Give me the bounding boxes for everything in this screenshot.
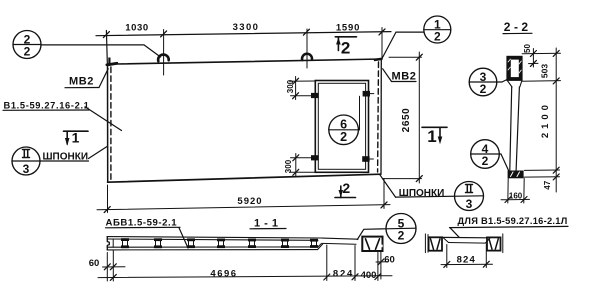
witness x=113 <box>112 251 114 282</box>
detail right block <box>487 237 501 250</box>
opening inner frame <box>318 83 365 169</box>
witness x=383.5 + dim 60 right <box>380 251 382 279</box>
svg-text:3: 3 <box>23 162 30 176</box>
witness line hook2 <box>306 29 308 68</box>
witness line right corner <box>381 28 383 59</box>
strip top flange outer line <box>107 237 322 238</box>
dim line 60 left <box>103 266 126 268</box>
svg-text:400: 400 <box>361 270 377 281</box>
panel left edge solid <box>107 64 109 183</box>
svg-text:300: 300 <box>286 79 295 93</box>
2-2 stem left line <box>510 87 512 170</box>
svg-text:160: 160 <box>509 191 523 200</box>
balloon 3/2 <box>469 68 497 96</box>
svg-text:1: 1 <box>72 130 80 146</box>
leader from balloon 2/2 to hook1 <box>41 45 161 57</box>
svg-text:МВ2: МВ2 <box>392 71 417 83</box>
2-2 taper below block <box>507 81 512 88</box>
rib 2 <box>154 238 162 248</box>
svg-text:2: 2 <box>398 228 405 242</box>
witness x=107 <box>106 253 108 282</box>
svg-text:2-2: 2-2 <box>504 20 532 34</box>
rib 7 <box>310 239 318 248</box>
svg-text:1030: 1030 <box>125 22 149 33</box>
panel bottom edge <box>108 174 381 182</box>
leader ABV to section rib <box>179 228 188 248</box>
svg-text:АБВ1.5-59-2.1: АБВ1.5-59-2.1 <box>106 217 178 228</box>
balloon II/3 left <box>12 147 40 175</box>
panel left edge dashed <box>110 67 112 180</box>
end block 1-1 <box>362 237 382 251</box>
2-2 top block <box>507 56 522 80</box>
2-2 bottom block <box>508 171 524 179</box>
thin flange bottom line <box>323 242 357 245</box>
2-2 right dims witness lines <box>522 52 560 55</box>
balloon 4/2 <box>471 140 500 169</box>
svg-text:2100: 2100 <box>540 101 551 138</box>
tick at 163 <box>161 31 167 37</box>
tick at 306 <box>303 29 309 35</box>
SECTION 1-1 STRIP <box>107 237 322 250</box>
svg-text:5920: 5920 <box>237 196 262 207</box>
strip top flange inner line <box>107 239 318 240</box>
strip bottom flange outer line <box>107 249 318 251</box>
balloon 2/2 top-left <box>13 31 41 59</box>
rib 1 <box>121 238 129 248</box>
thin flange top line <box>322 238 358 239</box>
svg-text:503: 503 <box>539 64 549 78</box>
svg-text:3: 3 <box>466 197 473 211</box>
balloon II/3 right <box>455 182 484 211</box>
2-2 stem right line <box>516 87 519 170</box>
break lines right <box>502 234 504 253</box>
svg-text:2650: 2650 <box>401 108 412 133</box>
dim 300 top: witness from opening corner <box>290 80 316 82</box>
svg-text:2: 2 <box>480 82 487 96</box>
svg-text:2: 2 <box>24 44 31 58</box>
leader 5/2 to end block <box>357 229 386 240</box>
rib 6 <box>281 239 289 248</box>
svg-text:1590: 1590 <box>336 23 360 34</box>
rib 3 <box>187 238 195 248</box>
svg-text:1: 1 <box>427 127 436 146</box>
dim line 50 <box>532 49 534 68</box>
svg-text:824: 824 <box>457 254 476 265</box>
main bottom dim line <box>98 276 392 278</box>
lifting hook 1 <box>158 55 169 62</box>
strip bottom flange inner line <box>107 246 318 248</box>
strip end joint line <box>112 239 114 247</box>
svg-text:60: 60 <box>89 258 100 269</box>
leader shponki left to panel edge <box>89 146 108 158</box>
witness x=327 <box>326 245 328 281</box>
svg-text:3300: 3300 <box>233 22 260 33</box>
svg-text:2: 2 <box>342 180 350 196</box>
main right dim line <box>555 48 557 192</box>
panel top-right corner thick mark <box>375 59 382 60</box>
opening outer frame <box>315 81 368 173</box>
panel right edge solid <box>380 59 382 174</box>
witness line left (x=106) <box>105 31 108 63</box>
rib 4 <box>217 239 225 249</box>
panel top-left corner stub <box>108 58 110 64</box>
dim 5920 <box>97 205 390 210</box>
rib 5 <box>248 239 256 248</box>
svg-text:47: 47 <box>543 180 552 189</box>
bolt right top <box>363 91 370 97</box>
witness x=355 <box>354 246 356 281</box>
svg-text:1-1: 1-1 <box>254 218 282 230</box>
balloon 6/2 in opening <box>329 115 359 145</box>
svg-text:4696: 4696 <box>210 269 237 280</box>
taper to thin flange <box>318 244 324 250</box>
strip left end cap <box>107 237 109 250</box>
svg-text:300: 300 <box>284 159 293 173</box>
tick at 106 <box>103 32 109 38</box>
svg-text:2: 2 <box>434 30 441 44</box>
dim 2650 right of panel <box>389 56 422 58</box>
leader into panel field <box>85 107 122 131</box>
detail left block <box>429 237 442 250</box>
detail top flange <box>442 236 487 238</box>
section mark 1 right <box>422 126 447 128</box>
section mark 1 left <box>64 130 89 132</box>
bolt left bottom <box>311 155 319 160</box>
witness line hook1 <box>163 30 165 76</box>
ticks bottom dim <box>110 274 116 280</box>
svg-text:2: 2 <box>482 154 489 168</box>
balloon 5/2 <box>386 214 416 244</box>
dim 824 detail <box>446 245 448 268</box>
lifting hook 2 <box>302 54 312 60</box>
svg-text:2: 2 <box>340 130 347 144</box>
bolt left top <box>311 93 319 98</box>
witness x=378 <box>377 253 379 281</box>
break lines left <box>424 234 426 253</box>
tick at 382 <box>379 29 385 35</box>
dim 160 under 2-2 <box>507 179 509 204</box>
dim 300 bottom: witness from opening bottom corner <box>290 171 316 173</box>
balloon 1/2 top-right <box>424 16 451 43</box>
svg-text:824: 824 <box>333 269 354 280</box>
svg-text:ДЛЯ В1.5-59.27.16-2.1Л: ДЛЯ В1.5-59.27.16-2.1Л <box>458 216 568 226</box>
bolt right bottom <box>362 156 369 162</box>
dim 300 bottom line <box>295 154 297 177</box>
panel right edge dashed <box>377 62 380 172</box>
top dimension line <box>96 32 391 36</box>
svg-text:МВ2: МВ2 <box>69 76 94 88</box>
svg-text:В1.5-59.27.16-2.1: В1.5-59.27.16-2.1 <box>4 100 90 110</box>
section mark 2 bottom <box>335 197 356 199</box>
leader shponki right to panel corner <box>380 175 396 197</box>
svg-text:60: 60 <box>384 255 395 266</box>
svg-text:2: 2 <box>341 38 350 57</box>
panel top edge <box>108 59 381 65</box>
dim 300 top line <box>295 77 297 100</box>
svg-text:50: 50 <box>523 44 532 53</box>
panel top-left corner thick mark <box>107 63 117 65</box>
section mark 2 top <box>335 36 356 38</box>
leader from balloon 1/2 to panel corner <box>382 32 424 58</box>
